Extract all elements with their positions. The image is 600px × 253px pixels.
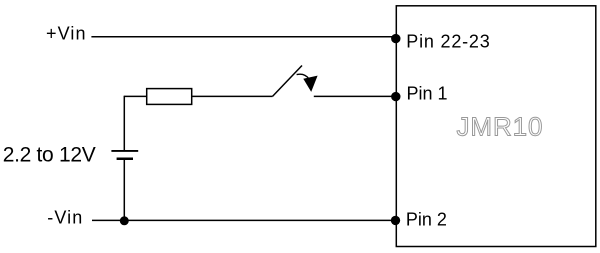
svg-text:+Vin: +Vin bbox=[46, 24, 87, 44]
battery B1 negative plate bbox=[117, 158, 133, 161]
wire battery - down to -Vin rail bbox=[123, 159, 125, 221]
svg-text:-Vin: -Vin bbox=[47, 208, 83, 228]
wire +Vin to Pin 22-23 bbox=[91, 36, 396, 38]
wire left vertical down to battery + bbox=[123, 96, 125, 151]
wire resistor to switch bbox=[192, 95, 273, 97]
node battery junction on -Vin rail bbox=[120, 216, 129, 225]
node Pin 22-23 junction bbox=[391, 34, 400, 43]
resistor R1 bbox=[147, 89, 192, 105]
svg-text:2.2 to 12V: 2.2 to 12V bbox=[3, 143, 96, 166]
wire switch to Pin 1 bbox=[314, 95, 397, 97]
switch actuation arrow arc bbox=[297, 74, 309, 79]
node Pin 1 junction bbox=[391, 92, 400, 101]
wire left horizontal to resistor bbox=[124, 95, 146, 97]
svg-text:JMR10: JMR10 bbox=[457, 112, 544, 142]
battery B1 positive plate bbox=[111, 150, 138, 152]
svg-text:Pin 1: Pin 1 bbox=[407, 83, 448, 103]
svg-text:Pin 2: Pin 2 bbox=[406, 210, 447, 230]
node Pin 2 junction bbox=[391, 216, 400, 225]
switch SW1 blade bbox=[273, 66, 303, 97]
module U1 JMR10 body bbox=[396, 6, 596, 247]
svg-text:Pin 22-23: Pin 22-23 bbox=[406, 32, 490, 52]
switch actuation arrowhead bbox=[303, 76, 317, 92]
wire -Vin to Pin 2 bbox=[92, 219, 396, 221]
